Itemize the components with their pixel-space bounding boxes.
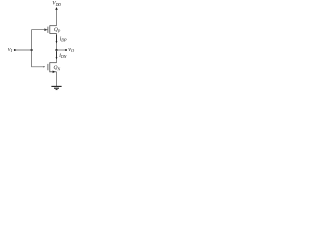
wire output node to QN drain: [56, 50, 58, 63]
svg-text:vO: vO: [68, 47, 75, 53]
wire VDD arrow shaft to QP source: [56, 10, 58, 26]
wire input bus to QP gate and QN gate: [32, 30, 48, 67]
QP gate arrowhead: [44, 28, 47, 31]
svg-text:iDP: iDP: [60, 37, 67, 43]
QN channel bar: [49, 62, 51, 72]
QN source lead with arrowhead: [50, 71, 57, 73]
svg-text:vI: vI: [8, 47, 13, 53]
QP channel bar: [49, 25, 51, 34]
svg-text:iDN: iDN: [59, 53, 66, 59]
output node junction: [55, 49, 57, 51]
current arrow iDN: [56, 51, 58, 59]
QP source lead: [50, 25, 57, 27]
wire output node to vO terminal: [57, 49, 66, 51]
wire QN source to ground: [56, 72, 58, 87]
QN gate lead end tick: [44, 66, 46, 67]
ground: [51, 86, 61, 89]
wire QP drain to output node: [56, 33, 58, 50]
terminal vI dot: [14, 49, 16, 51]
QN gate bar: [47, 64, 49, 70]
QN source arrowhead: [53, 71, 56, 74]
transistor QN (NMOS): [44, 62, 57, 73]
QN drain lead: [50, 62, 57, 64]
input node junction: [31, 49, 33, 51]
QP drain lead: [50, 32, 57, 34]
terminal vO dot: [65, 49, 67, 51]
QP gate bar: [47, 27, 49, 33]
transistor QP (PMOS): [44, 25, 56, 34]
wire vI terminal to input bus: [15, 49, 31, 51]
current arrow iDP: [56, 35, 58, 44]
VDD up arrow: [55, 7, 58, 10]
